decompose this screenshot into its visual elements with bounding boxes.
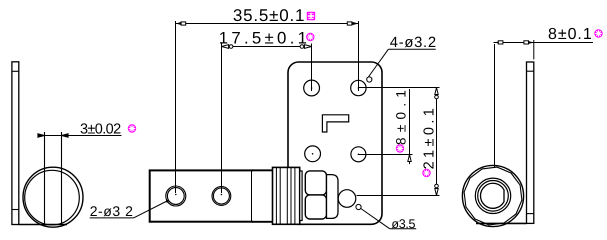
svg-text:8±0.1: 8±0.1 <box>394 85 409 145</box>
svg-text:35.5±0.1: 35.5±0.1 <box>233 6 305 25</box>
svg-text:21±0.1: 21±0.1 <box>422 105 438 170</box>
svg-text:3±0.02: 3±0.02 <box>80 122 121 138</box>
svg-text:17.5±0.1: 17.5±0.1 <box>219 29 311 48</box>
svg-text:4-ø3.2: 4-ø3.2 <box>390 35 437 51</box>
svg-text:8±0.1: 8±0.1 <box>548 26 593 43</box>
svg-text:2-ø3 2: 2-ø3 2 <box>90 203 134 219</box>
svg-text:ø3.5: ø3.5 <box>391 217 415 231</box>
